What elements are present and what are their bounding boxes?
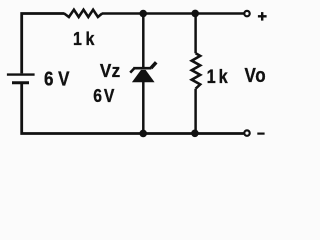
battery V1 bottom plate (12, 81, 29, 84)
zener diode D1 triangle (132, 70, 155, 82)
wire right branch upper lead (194, 13, 197, 54)
zener diode D1 cathode bar (133, 67, 151, 70)
svg-text:1 k: 1 k (207, 66, 228, 88)
node junction dot top zener (139, 10, 147, 18)
node junction dot top resistor (191, 10, 199, 18)
label 1 k (R2) (207, 66, 228, 88)
wire zener top lead (142, 13, 145, 68)
minus sign (257, 133, 264, 135)
svg-text:6 V: 6 V (44, 67, 70, 90)
wire left lower + bottom (22, 83, 244, 133)
resistor R1 zigzag (64, 10, 102, 17)
label Vo (245, 63, 267, 86)
plus sign (258, 12, 267, 21)
wire top-right segment (102, 12, 244, 15)
label 6 V (zener) (93, 85, 116, 107)
terminal + output (244, 11, 249, 16)
zener bar left tail (130, 69, 134, 73)
label 6 V (battery) (44, 67, 70, 90)
node junction dot bottom zener (139, 130, 147, 138)
terminal - output (244, 130, 249, 135)
zener bar right tail (151, 62, 156, 68)
node junction dot bottom resistor (191, 130, 199, 138)
label Vz (100, 60, 121, 81)
battery V1 top plate (7, 73, 35, 75)
svg-text:Vo: Vo (245, 63, 267, 86)
resistor R2 zigzag (192, 53, 201, 88)
svg-text:Vz: Vz (100, 60, 121, 81)
svg-text:1 k: 1 k (73, 28, 95, 50)
wire left upper + top-left segment (22, 14, 65, 74)
label 1 k (R1) (73, 28, 95, 50)
wire zener bottom lead (142, 81, 145, 134)
svg-text:6V: 6V (93, 85, 116, 107)
wire right branch lower lead (194, 89, 197, 134)
